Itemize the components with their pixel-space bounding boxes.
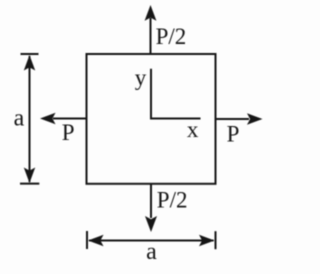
force arrow P right	[216, 113, 263, 124]
svg-text:P/2: P/2	[157, 187, 188, 212]
force arrow P left	[40, 113, 86, 124]
svg-text:P: P	[227, 121, 240, 146]
force arrow P/2 bottom	[145, 184, 157, 232]
svg-text:x: x	[187, 117, 199, 142]
dimension line a left	[20, 54, 39, 184]
svg-text:P/2: P/2	[156, 24, 187, 49]
svg-text:P: P	[62, 120, 75, 145]
square plate	[87, 54, 216, 184]
dimension line a bottom	[87, 231, 216, 249]
svg-text:a: a	[14, 105, 25, 131]
force arrow P/2 top	[145, 5, 157, 54]
svg-text:a: a	[146, 239, 157, 265]
svg-text:y: y	[135, 65, 147, 90]
coordinate axes x-y	[151, 69, 201, 119]
